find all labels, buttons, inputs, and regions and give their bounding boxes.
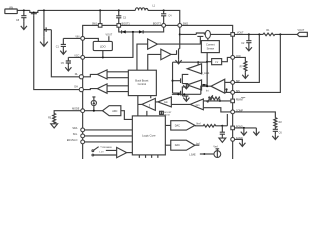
pin COMP xyxy=(231,109,244,114)
wire Logic Core bottom stubs xyxy=(139,155,158,158)
junction ISN tap xyxy=(279,33,281,35)
svg-text:Vref: Vref xyxy=(196,123,201,126)
junction C4 tap xyxy=(163,9,165,11)
wire precharge comp out xyxy=(127,152,133,154)
wire MODE net xyxy=(85,110,103,112)
svg-text:1.2V: 1.2V xyxy=(99,151,104,153)
ground (Vref filter) xyxy=(219,137,226,143)
wire SW2 rail after inductor xyxy=(148,10,180,23)
svg-text:Gm: Gm xyxy=(196,104,200,107)
pin ISP xyxy=(231,80,240,85)
wire net joins above Gm2 xyxy=(172,93,201,95)
junction SW1 node / Q2 drain xyxy=(43,9,45,11)
junction current sense branch xyxy=(206,61,208,63)
junction LDO output xyxy=(102,56,104,58)
wire LDO bottom lead xyxy=(102,51,104,58)
svg-text:DAC: DAC xyxy=(175,144,180,147)
capacitor C4 xyxy=(161,10,172,23)
wire ISN into amp xyxy=(225,91,231,93)
resistor R3 on MODE xyxy=(48,111,81,124)
pin DH xyxy=(74,86,83,92)
ground (PGND b) xyxy=(253,128,259,135)
wire SCL net xyxy=(85,135,133,137)
capacitor C3 xyxy=(116,10,126,23)
wire Gm1 to Gm2 xyxy=(155,102,190,105)
wire fb resistor to FB net xyxy=(219,99,221,101)
transistor Q1 (series pass FET on VIN rail) xyxy=(30,10,38,15)
svg-text:I_Limit: I_Limit xyxy=(202,72,210,75)
block Buck Boost Control xyxy=(128,70,156,95)
wire ISP sense xyxy=(235,34,260,82)
driver U3 (gate driver bottom) xyxy=(161,49,171,60)
wire driver U3 input riser xyxy=(148,54,161,70)
wire sense to VOUT pin xyxy=(204,33,231,35)
transistor Q6 internal xyxy=(173,87,189,96)
block Logic Core xyxy=(132,116,165,155)
wire driver U2 input riser xyxy=(137,44,148,70)
wire ISP into amp xyxy=(225,81,231,83)
wire COMP external xyxy=(235,112,276,118)
junction I source xyxy=(203,153,205,155)
svg-text:BUCK: BUCK xyxy=(164,115,170,117)
junction boot rail VCC feed xyxy=(132,31,134,33)
ground (C1) xyxy=(60,49,66,54)
wire T1 output xyxy=(83,74,97,76)
svg-text:SCL: SCL xyxy=(73,133,78,136)
current source VINT xyxy=(213,146,220,158)
capacitor C1 on VIN pin xyxy=(56,38,81,49)
pin CDC xyxy=(231,55,242,59)
svg-text:FB/INT: FB/INT xyxy=(236,98,244,101)
junction C2 tap xyxy=(248,33,250,35)
capacitor C8 xyxy=(16,10,26,22)
pin MODE xyxy=(72,107,84,112)
ground (Q5) xyxy=(183,84,189,89)
comparator EA xyxy=(187,80,201,90)
wire VOUT external rail xyxy=(235,33,298,35)
pin PGND xyxy=(231,125,243,129)
driver U2 (gate driver top) xyxy=(148,39,158,49)
IC outline xyxy=(83,25,233,161)
pin EN/UVLO xyxy=(67,139,85,144)
svg-text:DAC: DAC xyxy=(175,124,180,127)
wire SW1 riser xyxy=(99,10,101,23)
junction C8 tap xyxy=(23,9,25,11)
pin BOOT2 xyxy=(153,22,166,27)
inductor L1 xyxy=(135,4,155,10)
junction fb resistor xyxy=(219,100,221,102)
svg-text:I-V: I-V xyxy=(215,61,218,64)
transistor Q2 (low-side FET to ground) xyxy=(44,10,51,37)
junction net b xyxy=(183,93,185,95)
ground (Q6) xyxy=(183,96,189,101)
ground (Q3 source) xyxy=(175,59,181,64)
pin SCL xyxy=(73,133,85,138)
ground (Q2 source) xyxy=(40,37,48,46)
junction C3 tap xyxy=(118,9,120,11)
junction net a xyxy=(177,93,179,95)
svg-text:BOOT1: BOOT1 xyxy=(122,23,131,26)
svg-text:Logic Core: Logic Core xyxy=(142,133,156,137)
wire BBC bottom leads xyxy=(138,96,151,116)
node VIN flag xyxy=(5,6,17,13)
svg-text:MODE: MODE xyxy=(72,107,80,110)
node VOUT flag xyxy=(297,29,307,36)
svg-text:EN/UVLO: EN/UVLO xyxy=(67,139,78,142)
amplifier integrator xyxy=(142,98,155,110)
junction MODE node xyxy=(93,110,95,112)
DAC 1 (Vref) xyxy=(171,121,195,130)
pin ISN xyxy=(231,90,240,95)
svg-text:Current: Current xyxy=(206,43,215,47)
wire AGND xyxy=(235,139,243,141)
ground (AGND) xyxy=(239,139,245,146)
pin VIN xyxy=(75,35,84,40)
svg-text:Sense: Sense xyxy=(207,46,215,50)
ground (C8) xyxy=(21,21,27,29)
svg-text:VIN: VIN xyxy=(9,6,13,9)
block Current Sense xyxy=(201,41,219,53)
wire current sense out xyxy=(173,53,208,87)
pin AGND xyxy=(231,137,243,142)
wire VIN rail xyxy=(17,9,136,11)
wire ISN sense xyxy=(235,34,281,92)
junction amp out xyxy=(206,85,208,87)
amplifier current amp U4 xyxy=(211,79,225,93)
diode D1 (to BOOT1) xyxy=(122,30,126,33)
current source MODE xyxy=(91,97,96,111)
switch reference select xyxy=(92,146,117,156)
capacitor C2 xyxy=(241,34,251,45)
junction clamp gate xyxy=(172,80,174,82)
svg-text:Gm: Gm xyxy=(164,101,168,104)
svg-text:Int: Int xyxy=(206,90,209,93)
junction SW2 node internal xyxy=(179,33,181,35)
resistor R1 (sense) xyxy=(263,29,275,36)
diode D2 (to BOOT2) xyxy=(139,30,143,33)
resistor R7 on CDC xyxy=(235,57,247,72)
wire I-V input xyxy=(207,61,212,63)
transistor Q3 (boost low side) xyxy=(179,49,180,60)
wire T2 inputs xyxy=(107,86,128,92)
wire Q1 gate to pin DH xyxy=(34,15,79,89)
comparator I_Limit xyxy=(187,64,209,75)
amplifier Gm1 xyxy=(158,97,172,107)
pin FB/INT xyxy=(231,98,245,103)
wire SW2 internal riser xyxy=(179,27,181,48)
wire to current source xyxy=(200,153,214,155)
svg-text:SW2: SW2 xyxy=(183,22,189,25)
amplifier Gm2 xyxy=(190,99,203,110)
junction Vref RC xyxy=(221,125,223,127)
converter ADC xyxy=(103,106,121,116)
svg-text:SDA: SDA xyxy=(72,127,77,130)
driver T1 (to DL pin) xyxy=(97,70,107,79)
ground (C5) xyxy=(65,65,71,71)
wire VCC rail internal xyxy=(85,32,133,58)
wire PGND xyxy=(235,127,257,129)
ground (C2) xyxy=(246,45,252,51)
pin BOOT1 xyxy=(117,23,130,28)
pin DL xyxy=(75,73,84,79)
current sense loop xyxy=(205,30,210,38)
svg-text:Buck Boost: Buck Boost xyxy=(135,78,148,82)
wire I-V to CDC xyxy=(222,57,231,61)
junction ISN tap internal xyxy=(226,88,228,90)
svg-text:SW1: SW1 xyxy=(92,23,98,26)
resistor R2 xyxy=(274,118,283,130)
resistor Vref filter xyxy=(195,125,223,128)
pin SW1 xyxy=(92,23,102,28)
node VOUT internal label to LDO xyxy=(106,33,113,41)
junction PGND xyxy=(243,127,245,129)
ground (R3) xyxy=(51,122,58,128)
wire amp output xyxy=(201,86,211,94)
svg-text:Vref: Vref xyxy=(213,146,218,149)
svg-text:LDO: LDO xyxy=(100,45,107,49)
wire T1 inputs xyxy=(107,72,128,78)
junction SW1 pin riser xyxy=(99,9,101,11)
DAC 2 (Iref) xyxy=(171,140,195,150)
junction ISP tap xyxy=(258,33,260,35)
node BOOST/BUCK labels xyxy=(160,111,173,116)
svg-text:Control: Control xyxy=(138,82,147,86)
pin SDA xyxy=(72,127,84,132)
wire ADC output xyxy=(121,111,133,120)
ground (PGND a) xyxy=(241,128,247,135)
svg-text:ADC: ADC xyxy=(112,110,117,113)
wire FB/INT net xyxy=(204,100,231,102)
wire soft-start clamp net xyxy=(172,62,174,93)
comparator precharge xyxy=(117,147,127,157)
capacitor C6 xyxy=(273,129,283,134)
wire Vref riser xyxy=(226,114,228,126)
regulator LDO box xyxy=(93,41,112,50)
block I-V xyxy=(212,59,222,65)
svg-text:VOUT: VOUT xyxy=(106,33,113,36)
wire VIN pin to LDO xyxy=(85,38,99,41)
junction current sense to Ilimit xyxy=(197,61,199,63)
resistor internal feedback xyxy=(207,95,220,102)
svg-text:BOOT2: BOOT2 xyxy=(153,22,162,25)
driver T2 (to DH pin) xyxy=(97,84,107,93)
pin SW2 xyxy=(178,22,189,27)
svg-text:DH: DH xyxy=(74,86,78,89)
pin VOUT xyxy=(231,32,244,37)
wire Q2 gate to pin DL xyxy=(51,30,79,77)
wire EN/UVLO net xyxy=(85,141,133,143)
junction EA out xyxy=(203,84,205,86)
wire sense loop to block xyxy=(207,38,209,40)
ground (C6) xyxy=(272,135,278,140)
transistor Q5 internal xyxy=(173,74,189,83)
pin VCC xyxy=(74,54,84,59)
wire driver U2 output to Q4 gate xyxy=(157,37,200,44)
wire Vref to riser xyxy=(222,125,227,127)
ground (R7) xyxy=(242,73,248,79)
transistor Q4 (boost high side, horizontal) xyxy=(180,33,205,37)
wire driver U3 output to Q3 gate xyxy=(171,50,177,55)
wire boot diode rail xyxy=(119,27,164,32)
wire COMP internal xyxy=(204,108,231,112)
wire T2 output xyxy=(83,89,97,90)
wire SDA net xyxy=(85,129,133,131)
svg-text:I_SAE: I_SAE xyxy=(189,154,197,157)
capacitor Vref filter xyxy=(220,126,225,137)
wire DAC outputs xyxy=(165,125,199,145)
capacitor C5 on VCC pin xyxy=(61,57,81,65)
